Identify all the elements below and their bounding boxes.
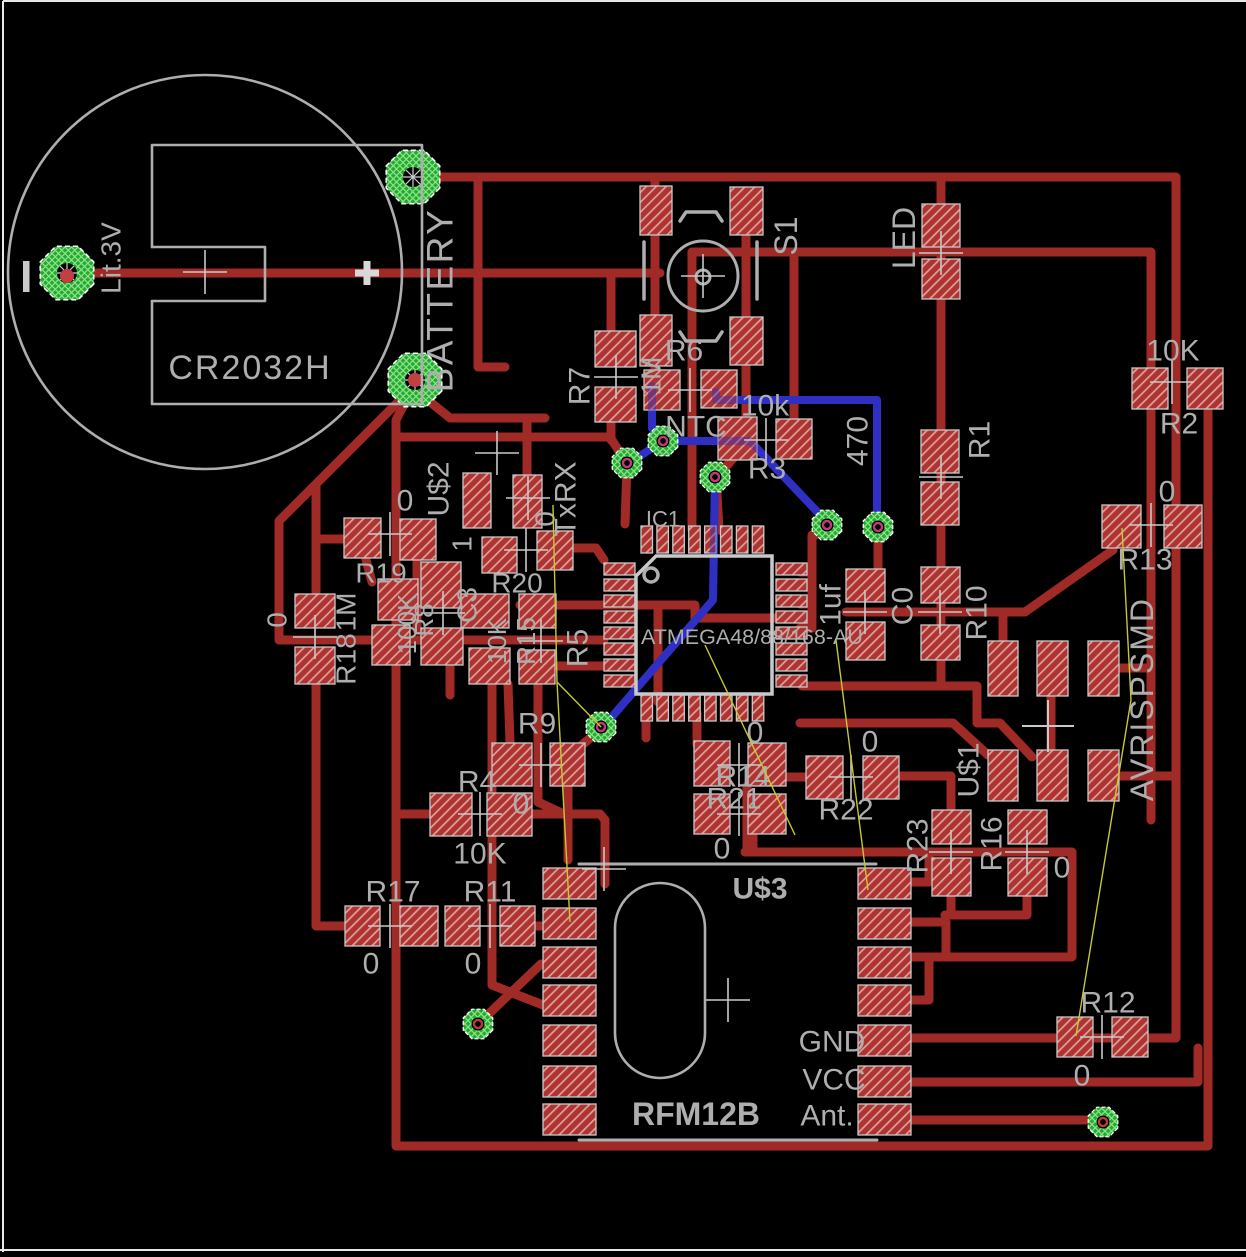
svg-text:0: 0 [714,833,731,866]
svg-text:R19: R19 [355,558,406,589]
svg-text:0: 0 [1074,1060,1091,1093]
svg-text:R15: R15 [511,617,541,665]
svg-text:0: 0 [747,717,764,750]
svg-text:IC1: IC1 [646,507,680,532]
svg-text:R12: R12 [1080,987,1135,1020]
svg-text:R2: R2 [1160,408,1198,441]
svg-text:1M: 1M [331,593,362,632]
svg-text:R11: R11 [464,876,517,909]
svg-text:0: 0 [1054,852,1071,885]
svg-text:R18: R18 [331,633,362,684]
svg-text:10k: 10k [741,390,790,423]
svg-text:0: 0 [530,511,561,527]
svg-text:10K: 10K [453,838,506,871]
svg-text:R9: R9 [518,708,556,741]
svg-text:1uf: 1uf [815,583,848,625]
svg-text:CR2032H: CR2032H [168,349,331,387]
svg-text:R20: R20 [491,568,542,599]
svg-text:R4: R4 [458,766,496,799]
svg-text:C3: C3 [452,587,483,623]
svg-text:BATTERY: BATTERY [420,208,461,393]
svg-text:R22: R22 [818,794,873,827]
svg-text:R23: R23 [902,818,935,873]
svg-text:R1: R1 [964,421,997,459]
svg-text:R5: R5 [562,629,595,667]
svg-text:470: 470 [842,416,875,466]
svg-text:0: 0 [465,948,482,981]
svg-text:10K: 10K [1146,335,1199,368]
svg-text:10K: 10K [482,617,512,664]
svg-text:R3: R3 [748,453,786,486]
svg-text:ATMEGA48/88/168-AU: ATMEGA48/88/168-AU [641,625,863,649]
svg-text:R17: R17 [365,876,420,909]
svg-text:R6: R6 [665,335,703,368]
svg-text:0: 0 [1159,476,1176,509]
svg-text:U$3: U$3 [732,873,787,906]
svg-text:VCC: VCC [802,1064,865,1097]
svg-text:0: 0 [363,948,380,981]
svg-text:S1: S1 [768,216,804,255]
svg-text:U$1: U$1 [953,742,986,797]
svg-text:LED: LED [886,207,922,269]
svg-text:R16: R16 [976,816,1009,871]
svg-text:AVRISPSMD: AVRISPSMD [1124,597,1160,801]
svg-text:C0: C0 [887,587,920,625]
svg-text:Ant.: Ant. [800,1100,853,1133]
svg-text:GND: GND [799,1026,866,1059]
svg-text:0: 0 [262,612,293,628]
svg-text:U$2: U$2 [423,461,456,516]
svg-text:Lit.3V: Lit.3V [96,222,127,294]
svg-text:1: 1 [447,536,478,552]
svg-text:RFM12B: RFM12B [632,1096,760,1132]
svg-text:R21: R21 [706,783,761,816]
svg-text:0: 0 [862,726,879,759]
svg-text:R13: R13 [1117,544,1172,577]
svg-text:R7: R7 [564,367,597,405]
svg-text:R8: R8 [409,603,439,636]
svg-text:NTC: NTC [665,411,727,444]
svg-text:R10: R10 [961,585,994,640]
svg-text:1M: 1M [636,357,667,396]
svg-text:0: 0 [397,485,414,518]
svg-text:0: 0 [513,788,530,821]
